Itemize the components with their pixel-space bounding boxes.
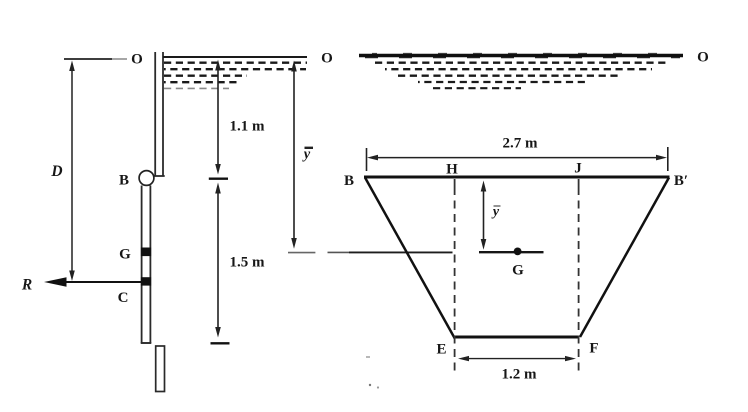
svg-text:1.1 m: 1.1 m <box>230 118 266 134</box>
water hatching row 2 (left) <box>164 68 306 70</box>
water hatching row 3 (left) <box>164 75 247 77</box>
svg-text:1.2 m: 1.2 m <box>502 367 538 383</box>
water hatching row 5 (right) <box>433 87 521 89</box>
hinge circle at B <box>139 171 154 186</box>
dashed construction line H-E <box>454 179 456 372</box>
svg-text:O: O <box>131 52 143 68</box>
svg-text:1.5 m: 1.5 m <box>230 255 266 271</box>
trapezoid gate: top edge B-B' <box>364 176 670 179</box>
water hatching row 4 (left) <box>164 81 237 83</box>
centroid level line, middle segment <box>328 251 453 253</box>
dashed construction line J-F <box>578 179 580 372</box>
svg-text:2.7 m: 2.7 m <box>503 136 539 152</box>
dimension 2.7 m: extension tick right <box>667 147 669 171</box>
label y-bar (front view) <box>491 205 501 220</box>
svg-text:F: F <box>589 341 598 357</box>
wall tube below gate <box>156 346 165 392</box>
centre-of-pressure marker square C on gate <box>141 277 151 285</box>
centroid level line, right segment through G <box>479 251 544 253</box>
svg-text:B: B <box>344 173 354 189</box>
gate plate below hinge <box>141 186 152 344</box>
stray scan speck: dash left of E <box>366 356 370 358</box>
svg-text:H: H <box>446 162 458 178</box>
water surface line (left) <box>163 56 307 58</box>
dimension line D (double-headed vertical arrow) <box>69 61 75 282</box>
svg-text:G: G <box>119 247 131 263</box>
dimension 2.7 m: extension tick left <box>366 148 368 171</box>
water hatching row 1 (right) <box>375 62 670 64</box>
water hatching row 1 (left) <box>164 62 307 64</box>
svg-text:G: G <box>512 263 524 279</box>
stray scan specks: dots bottom-left of front view <box>369 384 371 386</box>
trapezoid gate: bottom edge E-F <box>453 336 579 339</box>
svg-text:C: C <box>118 290 129 306</box>
water hatching row 3 (right) <box>398 75 618 77</box>
wall tube above hinge <box>154 52 165 176</box>
svg-text:O: O <box>697 50 709 66</box>
trapezoid gate: right slant B'-F <box>580 178 669 338</box>
water hatching row 5 (left, faint) <box>164 87 229 89</box>
gate-bottom tick <box>211 342 230 344</box>
dimension 2.7 m: arrowed line <box>367 155 667 161</box>
svg-text:y: y <box>491 205 500 220</box>
y-bar dimension (front view) <box>481 181 487 250</box>
hinge-level tick <box>209 177 228 179</box>
reaction force arrow R <box>44 277 146 287</box>
dimension line 1.1 m (surface to hinge level) <box>215 60 221 175</box>
water hatching row 4 (right) <box>418 81 588 83</box>
trapezoid gate: left slant B-E <box>365 178 454 338</box>
dimension 1.2 m: arrowed line <box>458 356 576 361</box>
left datum line at free-surface level O <box>64 58 127 60</box>
svg-text:J: J <box>574 161 582 177</box>
y-bar dimension (left view, surface to centroid level) <box>291 61 297 249</box>
label y-bar (left view) <box>302 147 313 163</box>
svg-text:D: D <box>50 163 62 180</box>
water hatching row 2 (right) <box>385 68 652 70</box>
centroid marker square G on gate <box>141 248 151 257</box>
svg-text:O: O <box>321 51 333 67</box>
water surface line (right, thick) <box>359 53 683 57</box>
svg-text:R: R <box>21 277 32 294</box>
svg-text:B′: B′ <box>674 173 688 189</box>
dimension line 1.5 m (hinge level to gate bottom) <box>215 183 221 338</box>
svg-text:B: B <box>119 173 129 189</box>
centroid dot G (front view) <box>514 248 522 256</box>
centroid level tick under y-bar arrow <box>288 252 315 254</box>
svg-text:E: E <box>436 342 446 358</box>
